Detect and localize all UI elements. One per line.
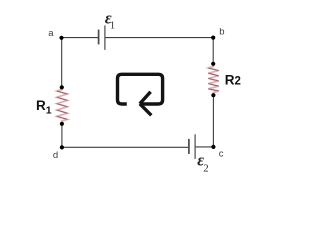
- node c junction dot: [211, 145, 215, 149]
- battery E1 long plate: [104, 26, 106, 50]
- wire battery E2 to c: [196, 146, 214, 148]
- svg-text:b: b: [219, 27, 224, 38]
- node d junction dot: [60, 145, 64, 149]
- svg-text:R2: R2: [225, 73, 241, 88]
- resistor R1 zigzag: [57, 89, 68, 123]
- R1 bottom terminal dot: [60, 122, 64, 126]
- R1 top terminal dot: [60, 85, 64, 89]
- svg-text:c: c: [219, 148, 224, 159]
- wire left a down to R1: [61, 38, 63, 88]
- R2 top terminal dot: [211, 62, 215, 66]
- node a junction dot: [59, 36, 63, 40]
- wire R1 down to d: [61, 124, 63, 148]
- wire battery E1 to b: [106, 37, 214, 39]
- battery E2 long plate: [194, 134, 196, 159]
- wire right b down to R2: [212, 38, 214, 64]
- wire top a to battery E1: [62, 37, 99, 39]
- svg-text:1: 1: [110, 21, 115, 32]
- node b junction dot: [211, 36, 215, 40]
- battery E1 short plate: [98, 30, 100, 45]
- svg-text:R1: R1: [36, 98, 52, 117]
- wire bottom d to battery E2: [62, 146, 188, 148]
- loop direction indicator (clockwise arrow): [118, 74, 163, 115]
- svg-text:a: a: [48, 28, 54, 39]
- resistor R2 zigzag: [208, 65, 218, 94]
- svg-text:d: d: [53, 150, 58, 161]
- wire R2 down to c: [212, 95, 214, 147]
- R2 bottom terminal dot: [211, 93, 215, 97]
- battery E2 short plate: [188, 139, 190, 154]
- svg-text:2: 2: [203, 163, 208, 174]
